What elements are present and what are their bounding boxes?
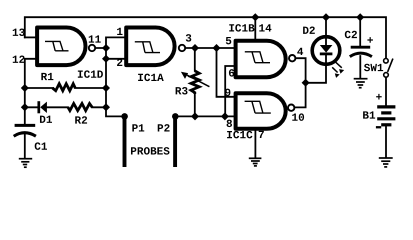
svg-text:+: + <box>367 36 374 48</box>
svg-text:2: 2 <box>116 58 123 70</box>
svg-text:C2: C2 <box>344 30 357 42</box>
svg-text:8: 8 <box>226 119 233 131</box>
svg-text:6: 6 <box>228 69 235 81</box>
svg-text:IC1D: IC1D <box>77 70 104 82</box>
svg-text:PROBES: PROBES <box>130 146 170 158</box>
svg-text:10: 10 <box>291 113 304 125</box>
svg-text:R1: R1 <box>41 72 55 84</box>
svg-text:R2: R2 <box>74 116 87 128</box>
svg-text:IC1C: IC1C <box>226 130 253 142</box>
svg-text:1: 1 <box>116 27 123 39</box>
svg-text:R3: R3 <box>175 86 189 98</box>
svg-text:P2: P2 <box>157 123 170 135</box>
svg-text:P1: P1 <box>132 123 146 135</box>
svg-text:7: 7 <box>258 130 265 142</box>
svg-text:D1: D1 <box>39 115 53 127</box>
svg-text:B1: B1 <box>362 111 376 123</box>
svg-text:4: 4 <box>297 47 304 59</box>
svg-text:5: 5 <box>225 36 232 48</box>
svg-text:+: + <box>376 92 383 104</box>
svg-text:11: 11 <box>88 35 102 47</box>
svg-text:SW1: SW1 <box>364 63 384 75</box>
svg-text:D2: D2 <box>302 26 315 38</box>
svg-text:IC1A: IC1A <box>137 73 164 85</box>
svg-text:3: 3 <box>185 33 192 45</box>
svg-text:9: 9 <box>224 88 231 100</box>
svg-text:12: 12 <box>12 55 25 67</box>
svg-text:C1: C1 <box>34 142 48 154</box>
svg-text:IC1B: IC1B <box>228 24 255 36</box>
svg-text:13: 13 <box>12 28 26 40</box>
svg-text:14: 14 <box>259 24 273 36</box>
